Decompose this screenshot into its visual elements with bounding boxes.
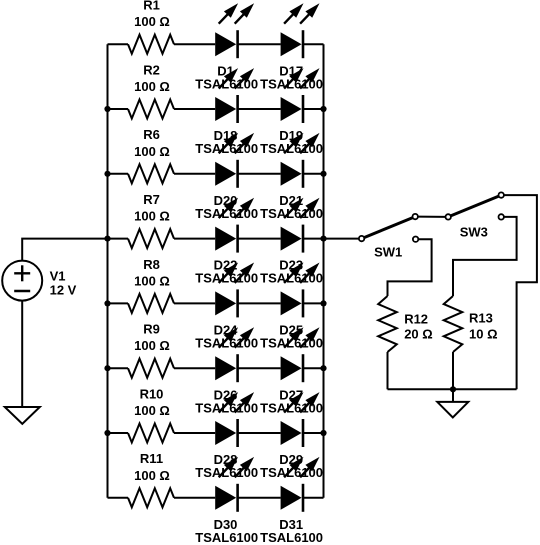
node: junction right bus [320,430,326,436]
node: junction left bus [104,106,110,112]
wire: row R9 left bus to resistor [108,367,129,369]
switch SW1 [359,214,418,242]
wire: D20 to D21 [238,173,281,175]
wire: D25 to right bus [303,302,324,304]
wire: R13 bottom [452,352,454,389]
wire: D19 to right bus [303,108,324,110]
node: junction ground rail [450,386,456,392]
svg-text:100 Ω: 100 Ω [134,338,170,353]
svg-text:100 Ω: 100 Ω [134,273,170,288]
svg-text:R13: R13 [469,311,493,326]
wire: D1 to D17 [238,43,281,45]
wire: R9 to D26 [174,367,215,369]
wire: D21 to right bus [303,173,324,175]
wire: bottom ground rail [388,388,517,390]
resistor R12 [378,296,397,352]
wire: row R8 left bus to resistor [108,302,129,304]
wire: rail to ground symbol [452,389,454,402]
svg-text:100 Ω: 100 Ω [134,209,170,224]
wire: V1 bottom to ground [21,301,23,407]
svg-text:R1: R1 [143,0,160,13]
wire: row R10 left bus to resistor [108,432,129,434]
LED D31 [281,457,320,512]
LED D20 [215,133,254,188]
node: junction right bus [320,365,326,371]
node: junction left bus [104,300,110,306]
wire: D17 to right bus [303,43,324,45]
wire: R1 to D1 [174,43,215,45]
svg-text:R7: R7 [143,192,160,207]
svg-text:R10: R10 [140,386,164,401]
svg-text:TSAL6100: TSAL6100 [260,530,323,545]
wire: SW1 lower throw to R12 [388,239,432,296]
svg-text:R2: R2 [143,62,160,77]
wire: row R11 left bus to resistor [108,497,129,499]
svg-text:V1: V1 [50,269,66,284]
resistor R1 [128,35,174,54]
resistor R13 [444,296,463,352]
LED D23 [281,198,320,253]
LED D26 [215,327,254,382]
svg-text:20 Ω: 20 Ω [404,327,433,342]
resistor R9 [128,359,174,378]
LED D29 [281,392,320,447]
resistor R8 [128,294,174,313]
node: junction right bus [320,171,326,177]
node: junction left bus [104,430,110,436]
wire: D18 to D19 [238,108,281,110]
wire: D26 to D27 [238,367,281,369]
svg-text:TSAL6100: TSAL6100 [195,530,258,545]
svg-text:100 Ω: 100 Ω [134,79,170,94]
svg-text:R6: R6 [143,127,160,142]
wire: row R6 left bus to resistor [108,173,129,175]
wire: V1 top to left bus [22,239,107,261]
node: junction right bus [320,236,326,242]
svg-text:100 Ω: 100 Ω [134,468,170,483]
wire: D27 to right bus [303,367,324,369]
wire: SW1 to SW3 [418,216,446,218]
voltage source V1 [2,261,42,301]
wire: R10 to D28 [174,432,215,434]
resistor R6 [128,164,174,183]
svg-text:SW3: SW3 [460,225,488,240]
wire: R6 to D20 [174,173,215,175]
wire: row R1 left bus to resistor [108,43,129,45]
wire: R11 to D30 [174,497,215,499]
svg-text:10 Ω: 10 Ω [469,327,498,342]
node: junction right bus [320,300,326,306]
wire: SW3 lower throw to R13 [453,217,517,296]
resistor R7 [128,229,174,248]
wire: right bus [323,44,325,498]
wire: row R7 right bus to SW1 [324,238,359,240]
wire: R2 to D18 [174,108,215,110]
ground (right) [437,402,468,418]
wire: R8 to D24 [174,302,215,304]
LED D24 [215,263,254,318]
node: junction left bus [104,236,110,242]
wire: D23 to right bus [303,238,324,240]
resistor R11 [128,488,174,507]
svg-text:R12: R12 [404,312,428,327]
svg-text:R8: R8 [143,257,160,272]
wire: D24 to D25 [238,302,281,304]
ground (V1) [5,407,40,424]
wire: D30 to D31 [238,497,281,499]
node: junction left bus [104,365,110,371]
node: junction left bus [104,171,110,177]
svg-text:SW1: SW1 [374,245,402,260]
wire: D29 to right bus [303,432,324,434]
svg-text:100 Ω: 100 Ω [134,403,170,418]
wire: D28 to D29 [238,432,281,434]
wire: D31 to right bus [303,497,324,499]
LED D30 [215,457,254,512]
LED D25 [281,263,320,318]
LED D1 [215,3,254,58]
node: junction right bus [320,106,326,112]
resistor R10 [128,424,174,443]
svg-text:100 Ω: 100 Ω [134,144,170,159]
wire: row R7 left bus to resistor [108,238,129,240]
LED D22 [215,198,254,253]
svg-text:R9: R9 [143,322,160,337]
wire: R12 bottom [387,352,389,389]
LED D21 [281,133,320,188]
LED D28 [215,392,254,447]
wire: R7 to D22 [174,238,215,240]
LED D19 [281,68,320,123]
LED D18 [215,68,254,123]
LED D17 [281,3,320,58]
wire: row R2 left bus to resistor [108,108,129,110]
wire: SW3 upper throw to ground rail [504,195,537,389]
LED D27 [281,327,320,382]
svg-text:R11: R11 [140,451,163,466]
svg-text:12 V: 12 V [50,283,77,298]
svg-text:100 Ω: 100 Ω [134,14,170,29]
wire: left bus [107,44,109,498]
resistor R2 [128,100,174,119]
switch SW3 [446,192,504,219]
wire: D22 to D23 [238,238,281,240]
